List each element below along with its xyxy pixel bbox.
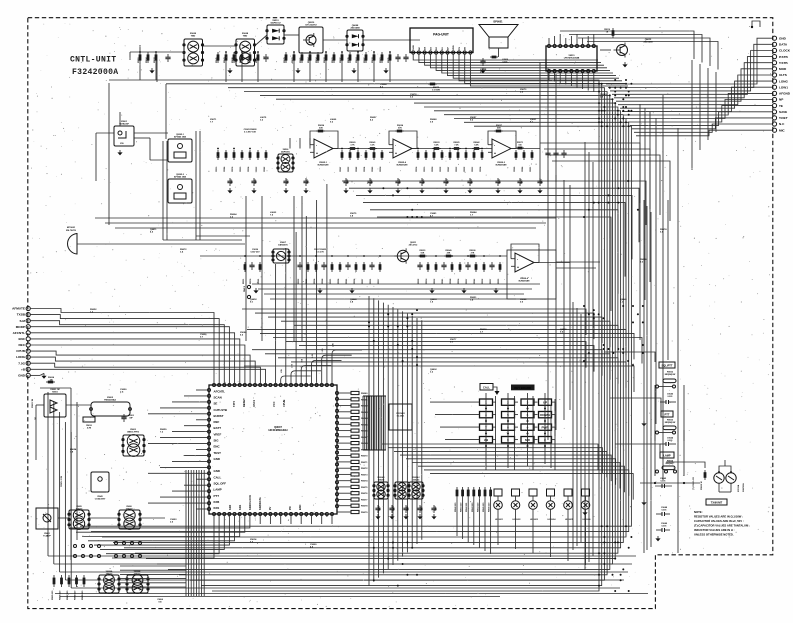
svg-text:R9023: R9023 — [248, 57, 250, 63]
svg-text:GND: GND — [18, 374, 26, 378]
svg-text:R9082: R9082 — [474, 279, 476, 284]
svg-text:NJM2904M: NJM2904M — [496, 164, 507, 167]
svg-text:NJM2904M: NJM2904M — [519, 280, 530, 283]
svg-text:LED9011: LED9011 — [495, 519, 503, 521]
svg-text:GND: GND — [413, 45, 415, 50]
svg-text:C9020: C9020 — [456, 167, 458, 172]
svg-text:C9034: C9034 — [379, 167, 382, 172]
svg-text:ULTS: ULTS — [779, 73, 787, 77]
svg-text:MR(9W)?: MR(9W)? — [666, 463, 675, 465]
svg-text:6.5K: 6.5K — [474, 144, 479, 146]
svg-text:R9091: R9091 — [330, 279, 332, 284]
svg-text:2SC2712: 2SC2712 — [409, 245, 419, 247]
svg-text:R9074: R9074 — [355, 56, 358, 63]
svg-text:F3242000A: F3242000A — [72, 68, 118, 77]
svg-text:T.DET: T.DET — [779, 116, 788, 120]
svg-text:R9096: R9096 — [256, 57, 258, 63]
svg-text:SQL.OFF: SQL.OFF — [214, 482, 227, 486]
svg-text:EM-79HT6: EM-79HT6 — [66, 230, 77, 232]
svg-text:SQL/PTT: SQL/PTT — [662, 364, 673, 368]
svg-text:C9039: C9039 — [464, 167, 466, 172]
svg-text:R9087: R9087 — [364, 57, 366, 63]
svg-text:C9068: C9068 — [522, 167, 524, 172]
svg-text:Q9040: Q9040 — [350, 298, 357, 301]
svg-text:5.3K: 5.3K — [370, 144, 375, 146]
svg-text:R9093: R9093 — [498, 279, 500, 284]
svg-text:R9021: R9021 — [332, 57, 334, 63]
svg-text:C9080: C9080 — [264, 167, 266, 172]
svg-text:C9058: C9058 — [480, 167, 482, 172]
svg-text:R9081: R9081 — [380, 57, 382, 63]
svg-text:RESISTOR VALUES ARE IN Ω,1/16: RESISTOR VALUES ARE IN Ω,1/16W : — [694, 515, 743, 519]
svg-text:R9013: R9013 — [372, 57, 374, 63]
svg-text:AFMUTE: AFMUTE — [12, 307, 25, 311]
svg-text:MODP: MODP — [16, 325, 25, 329]
svg-text:C9022: C9022 — [472, 167, 474, 172]
svg-text:PD: PD — [288, 506, 292, 510]
svg-text:60K: 60K — [421, 252, 425, 254]
svg-text:TM54433AA: TM54433AA — [104, 399, 116, 402]
svg-text:R9005 1M: R9005 1M — [32, 398, 34, 408]
svg-text:0.047 25V: 0.047 25V — [250, 250, 260, 253]
svg-text:LED9013: LED9013 — [530, 519, 538, 521]
svg-text:BP9001: BP9001 — [493, 21, 503, 24]
svg-text:R9031: R9031 — [243, 279, 245, 284]
svg-text:R9039: R9039 — [418, 279, 420, 284]
svg-text:R9027: R9027 — [240, 57, 242, 63]
svg-text:R9068 1K: R9068 1K — [701, 480, 703, 490]
svg-text:R9078: R9078 — [250, 279, 252, 284]
svg-text:CHTLSTB: CHTLSTB — [214, 408, 228, 412]
svg-text:1SS272: 1SS272 — [126, 508, 133, 510]
svg-text:AF9040 2MA: AF9040 2MA — [174, 135, 186, 138]
svg-text:67K: 67K — [398, 127, 402, 129]
svg-text:R9013: R9013 — [324, 57, 326, 63]
svg-text:INDUCTOR VALUES ARE IN H :: INDUCTOR VALUES ARE IN H : — [694, 528, 735, 532]
svg-text:T3T0: T3T0 — [232, 400, 236, 407]
svg-text:R9050: R9050 — [434, 279, 436, 284]
svg-text:KEY BOARD: KEY BOARD — [514, 386, 531, 390]
svg-text:TXSB: TXSB — [17, 313, 26, 317]
svg-text:+: + — [517, 266, 519, 270]
svg-text:KR0: KR0 — [228, 504, 232, 510]
svg-text:0.001: 0.001 — [667, 440, 673, 442]
svg-text:4.7M: 4.7M — [87, 426, 92, 429]
svg-text:R9021: R9021 — [292, 57, 294, 63]
svg-text:PAIR 9: PAIR 9 — [243, 286, 246, 292]
svg-text:C9090: C9090 — [348, 167, 350, 172]
svg-text:C9078: C9078 — [232, 167, 234, 172]
svg-text:C9089: C9089 — [356, 167, 358, 172]
svg-text:7.2K: 7.2K — [454, 144, 459, 146]
svg-text:R9097: R9097 — [362, 279, 364, 284]
svg-text:C9020: C9020 — [256, 167, 258, 172]
svg-text:R9014: R9014 — [425, 279, 428, 284]
svg-text:R9081: R9081 — [346, 279, 348, 284]
svg-text:C978: C978 — [407, 506, 409, 511]
svg-text:MR(9W)3W: MR(9W)3W — [665, 422, 676, 424]
svg-text:0.001: 0.001 — [667, 396, 673, 398]
svg-text:TA78L05F: TA78L05F — [119, 123, 130, 126]
svg-text:RESET: RESET — [242, 398, 246, 407]
svg-text:R9039: R9039 — [348, 57, 350, 63]
svg-text:C9058: C9058 — [248, 167, 250, 172]
svg-text:2SB766A: 2SB766A — [742, 483, 745, 492]
svg-text:-: - — [517, 257, 518, 261]
svg-text:SAVE: SAVE — [779, 110, 787, 114]
svg-text:63K: 63K — [319, 127, 323, 129]
svg-text:TC4B7P: TC4B7P — [43, 534, 51, 537]
svg-text:28K: 28K — [447, 252, 451, 254]
svg-text:X9001: X9001 — [52, 391, 59, 393]
svg-text:DEC: DEC — [18, 343, 25, 347]
svg-text:C104A 3WV: C104A 3WV — [95, 497, 106, 500]
svg-text:C9083: C9083 — [372, 167, 374, 172]
svg-text:T.STB: T.STB — [779, 61, 788, 65]
svg-text:R9084: R9084 — [470, 211, 477, 214]
svg-text:AFCNTL: AFCNTL — [13, 331, 25, 335]
svg-text:1SS272: 1SS272 — [378, 479, 385, 481]
svg-text:C9025: C9025 — [240, 167, 242, 172]
svg-text:BURST: BURST — [214, 414, 224, 418]
svg-text:TE: TE — [779, 104, 783, 108]
svg-text:R9079: R9079 — [284, 57, 286, 63]
svg-text:CPUB: CPUB — [16, 349, 26, 353]
svg-text:NJM2902M: NJM2902M — [397, 165, 408, 167]
svg-text:(T):CAPACITOR VALUES ARE TANTA: (T):CAPACITOR VALUES ARE TANTALUM : — [694, 524, 750, 528]
svg-text:PAG-UNIT: PAG-UNIT — [433, 33, 449, 37]
svg-text:DX: DX — [425, 46, 427, 50]
svg-text:CLOCK: CLOCK — [779, 49, 791, 53]
svg-text:R9044: R9044 — [321, 279, 324, 284]
svg-text:DAP601U: DAP601U — [271, 22, 281, 25]
svg-text:R9013: R9013 — [154, 57, 156, 63]
svg-text:R9564 220: R9564 220 — [476, 503, 479, 512]
svg-text:GND: GND — [214, 469, 220, 473]
svg-text:X9512A: X9512A — [737, 484, 740, 492]
svg-text:MOD: MOD — [779, 67, 787, 71]
svg-text:-: - — [316, 143, 317, 147]
svg-text:CAPACITOR VALUES ARE IN uF, 50: CAPACITOR VALUES ARE IN uF, 50V : — [694, 519, 744, 523]
svg-text:R9005 220: R9005 220 — [52, 591, 54, 600]
svg-text:C9068: C9068 — [224, 167, 226, 172]
svg-text:BATT: BATT — [214, 426, 222, 430]
svg-text:R9037: R9037 — [466, 279, 468, 284]
svg-text:0.1/10W: 0.1/10W — [432, 90, 440, 92]
svg-text:Q9049: Q9049 — [620, 298, 627, 301]
svg-text:-: - — [395, 143, 396, 147]
svg-text:C9091: C9091 — [530, 167, 532, 172]
svg-text:KR1: KR1 — [238, 504, 242, 510]
svg-text:LONG: LONG — [16, 355, 26, 359]
svg-text:AFCNTL: AFCNTL — [214, 389, 226, 393]
svg-text:UNLESS OTHERWISE NOTED.: UNLESS OTHERWISE NOTED. — [694, 533, 734, 537]
svg-text:R9076: R9076 — [361, 493, 368, 495]
svg-text:uPD74HC4094B: uPD74HC4094B — [564, 57, 580, 60]
svg-text:SIG: SIG — [214, 439, 220, 443]
svg-text:LAMP: LAMP — [663, 454, 671, 458]
svg-text:R9008 220: R9008 220 — [75, 591, 77, 600]
svg-text:KR3/DATA: KR3/DATA — [258, 497, 262, 510]
svg-text:R9006 220: R9006 220 — [60, 591, 62, 600]
svg-text:AF9040 2MA: AF9040 2MA — [174, 175, 186, 178]
svg-text:OSC1: OSC1 — [252, 399, 256, 407]
svg-text:TX/9UNIT: TX/9UNIT — [711, 501, 723, 505]
svg-text:CR9CL 0.1M: CR9CL 0.1M — [61, 476, 63, 487]
svg-text:VDD: VDD — [453, 45, 455, 50]
svg-text:2SD1588: 2SD1588 — [350, 28, 360, 30]
svg-text:R9079: R9079 — [361, 512, 368, 514]
svg-text:45K: 45K — [497, 126, 501, 129]
svg-text:+: + — [316, 152, 318, 156]
svg-text:ILI-5921: ILI-5921 — [397, 415, 405, 417]
svg-text:R9058: R9058 — [314, 279, 316, 284]
svg-text:C981: C981 — [393, 506, 395, 511]
svg-text:C9094: C9094 — [380, 83, 387, 86]
svg-text:R9098: R9098 — [338, 279, 340, 284]
svg-text:SE: SE — [214, 402, 218, 406]
svg-text:R9064: R9064 — [307, 56, 310, 63]
svg-text:7.5G: 7.5G — [18, 361, 25, 365]
svg-text:R9070: R9070 — [361, 456, 368, 458]
svg-text:TBD: TBD — [191, 36, 196, 38]
svg-text:R9037: R9037 — [340, 57, 342, 63]
svg-text:DAP601U: DAP601U — [281, 150, 291, 153]
svg-text:C9094: C9094 — [431, 167, 434, 172]
svg-text:KR2/CLOCK: KR2/CLOCK — [248, 495, 252, 510]
svg-text:R9091: R9091 — [138, 57, 140, 63]
svg-text:R9060: R9060 — [361, 393, 368, 395]
svg-text:REF: REF — [214, 420, 220, 424]
svg-text:-: - — [494, 143, 495, 147]
svg-text:R9004: R9004 — [230, 213, 237, 216]
svg-text:S.M: S.M — [19, 319, 25, 323]
svg-text:DAN601K: DAN601K — [278, 244, 288, 247]
svg-text:R9075: R9075 — [361, 487, 368, 489]
svg-text:GND: GND — [779, 36, 787, 40]
svg-text:R9045: R9045 — [215, 57, 218, 63]
svg-text:0.1 4.7K: 0.1 4.7K — [316, 250, 324, 253]
svg-text:NOTE:: NOTE: — [694, 510, 703, 514]
svg-text:+: + — [395, 152, 397, 156]
svg-text:LONG: LONG — [779, 79, 789, 83]
svg-text:R9030: R9030 — [298, 279, 300, 284]
svg-text:R9024: R9024 — [145, 56, 148, 63]
svg-text:2SD1588: 2SD1588 — [643, 42, 653, 44]
svg-text:SCAN: SCAN — [214, 395, 222, 399]
svg-text:X9014: X9014 — [250, 538, 257, 541]
svg-text:R9044: R9044 — [449, 279, 452, 284]
svg-text:NJM2902M: NJM2902M — [318, 165, 329, 167]
svg-text:LAMP: LAMP — [214, 488, 222, 492]
svg-text:R9071: R9071 — [361, 462, 368, 464]
svg-text:1SS272: 1SS272 — [76, 508, 83, 510]
svg-text:DE: DE — [465, 46, 467, 50]
svg-text:R9014: R9014 — [315, 56, 318, 63]
svg-text:CALL: CALL — [214, 475, 222, 479]
svg-text:0.001: 0.001 — [502, 61, 508, 63]
svg-text:100: 100 — [158, 601, 161, 603]
svg-text:C943: C943 — [420, 506, 423, 511]
svg-text:0.001: 0.001 — [661, 509, 667, 511]
svg-text:9V: 9V — [268, 507, 272, 510]
svg-text:R9085: R9085 — [300, 57, 302, 63]
svg-text:TEST: TEST — [214, 451, 222, 455]
svg-text:HD404889A39H: HD404889A39H — [268, 428, 287, 432]
svg-text:R9035: R9035 — [388, 57, 390, 63]
svg-text:C9015: C9015 — [424, 167, 426, 172]
svg-text:VREF: VREF — [214, 432, 222, 436]
svg-text:0.001: 0.001 — [660, 480, 666, 482]
svg-text:ENC: ENC — [298, 504, 302, 510]
svg-text:C9047: C9047 — [339, 167, 342, 172]
svg-text:C9015: C9015 — [216, 167, 218, 172]
svg-text:NP: NP — [779, 98, 783, 102]
svg-text:PTT: PTT — [214, 494, 220, 498]
svg-text:R9077: R9077 — [361, 500, 368, 502]
svg-text:L9024: L9024 — [70, 448, 77, 451]
svg-text:+: + — [494, 152, 496, 156]
svg-text:R9037: R9037 — [490, 279, 492, 284]
svg-text:R9041: R9041 — [257, 279, 260, 284]
svg-text:1SS272: 1SS272 — [106, 573, 113, 575]
svg-text:R9078: R9078 — [361, 506, 368, 508]
svg-text:VCC: VCC — [272, 401, 276, 407]
svg-text:1BB10-TPH3: 1BB10-TPH3 — [127, 431, 140, 433]
svg-text:C9047: C9047 — [447, 167, 450, 172]
svg-text:C9018: C9018 — [416, 167, 418, 172]
svg-text:C9039: C9039 — [440, 167, 442, 172]
svg-text:ENC: ENC — [18, 337, 25, 341]
svg-text:0.1 2KV 10K: 0.1 2KV 10K — [244, 132, 256, 134]
svg-text:DATA: DATA — [779, 43, 788, 47]
svg-text:R9061: R9061 — [442, 279, 444, 284]
svg-text:CNTL-UNIT: CNTL-UNIT — [70, 56, 116, 65]
svg-text:MIC: MIC — [779, 128, 785, 132]
svg-text:ENC: ENC — [214, 445, 221, 449]
svg-text:C941: C941 — [378, 506, 381, 511]
svg-text:CPUB: CPUB — [282, 400, 286, 407]
svg-text:R9069: R9069 — [306, 279, 308, 284]
svg-text:0.001: 0.001 — [661, 525, 667, 527]
svg-text:R9072: R9072 — [361, 468, 368, 470]
svg-text:KR6: KR6 — [214, 500, 220, 504]
svg-text:R9074: R9074 — [361, 480, 368, 483]
svg-text:R9007 220: R9007 220 — [67, 591, 69, 600]
svg-text:MR(9W)3W: MR(9W)3W — [665, 374, 676, 376]
svg-text:CALL: CALL — [483, 385, 490, 389]
svg-text:LED9015: LED9015 — [565, 519, 573, 521]
svg-text:LOW1: LOW1 — [779, 85, 788, 89]
svg-text:R9041: R9041 — [223, 57, 226, 63]
svg-text:LED9014: LED9014 — [548, 518, 557, 521]
svg-text:GND: GND — [214, 457, 220, 461]
svg-text:P.STB: P.STB — [779, 55, 788, 59]
svg-text:R9009 220: R9009 220 — [82, 591, 84, 600]
svg-text:27K: 27K — [471, 252, 475, 254]
svg-text:C9045: C9045 — [513, 167, 516, 172]
svg-text:N.C: N.C — [779, 122, 785, 126]
svg-text:1SS272: 1SS272 — [413, 479, 420, 481]
svg-text:R9018: R9018 — [458, 279, 460, 284]
svg-text:R9051: R9051 — [370, 279, 372, 284]
svg-text:LED9016: LED9016 — [583, 519, 591, 521]
svg-text:LED9012: LED9012 — [513, 519, 521, 521]
svg-text:1M: 1M — [50, 379, 53, 381]
svg-text:KR1: KR1 — [214, 506, 220, 510]
svg-text:6.2K: 6.2K — [434, 144, 439, 146]
svg-text:R9073: R9073 — [361, 474, 368, 476]
svg-text:TBD: TBD — [243, 36, 248, 38]
svg-text:3.7K: 3.7K — [350, 144, 355, 146]
svg-text:DTC144TU: DTC144TU — [305, 24, 316, 27]
svg-text:C9056: C9056 — [364, 167, 366, 172]
svg-text:R9038: R9038 — [354, 279, 356, 284]
svg-text:MC9001: MC9001 — [67, 227, 76, 229]
svg-text:R9017: R9017 — [378, 279, 380, 284]
svg-text:AFGND: AFGND — [779, 92, 791, 96]
svg-text:R9050: R9050 — [482, 279, 484, 284]
